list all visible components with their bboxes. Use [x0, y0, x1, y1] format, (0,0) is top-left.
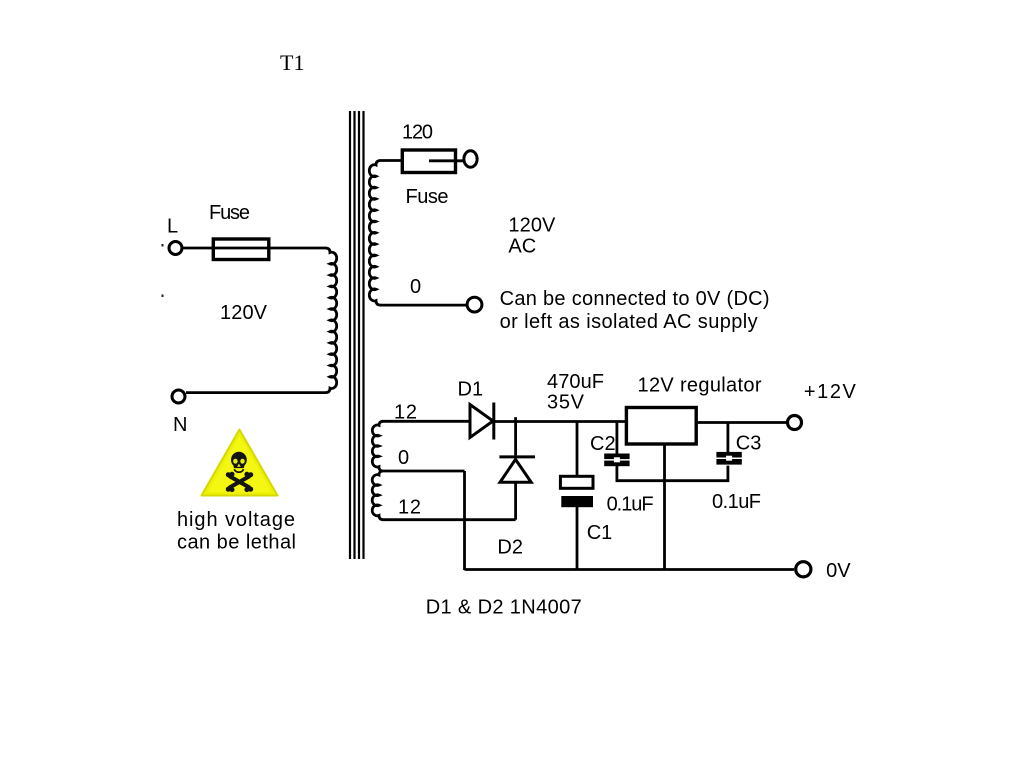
svg-text:C2: C2 [590, 433, 616, 455]
svg-text:D1 & D2 1N4007: D1 & D2 1N4007 [426, 597, 582, 619]
svg-text:L: L [167, 216, 178, 238]
svg-text:C3: C3 [736, 433, 762, 455]
svg-text:D2: D2 [497, 537, 523, 559]
svg-text:120V: 120V [508, 215, 556, 237]
svg-text:or left as isolated AC supply: or left as isolated AC supply [500, 311, 758, 333]
regulator ground pin [663, 444, 666, 570]
wire upper tap to D1 [382, 420, 470, 423]
wire secondary1 bottom [380, 304, 468, 307]
wire coil to fuse F2 [380, 159, 403, 162]
secondary 1 (120V) winding [369, 161, 380, 306]
capacitor C2 [604, 454, 629, 467]
fuse F1 (primary) [213, 239, 268, 260]
jaw [234, 469, 243, 472]
terminal 0V [796, 562, 811, 577]
skull [231, 452, 247, 468]
diode D2 [499, 457, 535, 482]
wire L to primary coil [182, 247, 326, 250]
terminal N [172, 390, 185, 403]
svg-text:high voltage: high voltage [177, 509, 295, 531]
junction stub and riser to D2 [514, 417, 517, 455]
secondary 2 lower winding (0-12) [372, 471, 383, 520]
capacitor C1 [560, 476, 593, 488]
svg-text:0: 0 [398, 447, 409, 469]
svg-text:C1: C1 [587, 522, 613, 544]
svg-text:0V: 0V [826, 560, 851, 582]
12V regulator box [626, 408, 696, 445]
center tap wire [382, 470, 465, 473]
wire primary bottom to N [186, 391, 326, 394]
D2 anode lead [514, 484, 517, 520]
C2 bottom lead and ground bus [617, 466, 728, 481]
terminal +12V [788, 416, 802, 430]
svg-text:12: 12 [398, 497, 421, 519]
svg-text:0.1uF: 0.1uF [607, 494, 654, 516]
terminal 120 output [464, 151, 477, 167]
svg-text:120: 120 [402, 121, 433, 143]
lower tap wire to D2 [382, 518, 516, 521]
svg-text:N: N [173, 414, 187, 436]
svg-text:+12V: +12V [804, 381, 857, 403]
fuse F2 (secondary) [402, 150, 455, 173]
stray dot 2 [162, 295, 164, 298]
regulator output wire [696, 421, 788, 424]
transformer core [350, 111, 364, 559]
svg-text:120V: 120V [220, 302, 268, 324]
svg-text:470uF: 470uF [547, 371, 604, 393]
wire D1 to regulator input [494, 420, 628, 423]
center tap riser to 0V rail [463, 471, 466, 570]
svg-text:D1: D1 [458, 379, 484, 401]
primary winding [326, 248, 337, 393]
capacitor C1 lead bottom [576, 507, 579, 570]
crossbones [230, 477, 249, 488]
terminal L [169, 242, 182, 255]
capacitor C2 lead [616, 422, 619, 455]
svg-text:can be lethal: can be lethal [177, 532, 296, 554]
warning triangle [202, 430, 278, 496]
svg-text:Fuse: Fuse [406, 186, 449, 208]
svg-text:0.1uF: 0.1uF [712, 491, 761, 513]
stray dot 1 [162, 244, 164, 247]
svg-text:Fuse: Fuse [209, 202, 250, 224]
svg-text:Can be connected to 0V (DC): Can be connected to 0V (DC) [500, 288, 770, 310]
diode D1 [470, 403, 494, 440]
0V rail [465, 568, 795, 571]
wire inside fuse to terminal [429, 159, 464, 162]
secondary 2 upper winding (12-0) [372, 421, 383, 471]
svg-text:AC: AC [508, 236, 536, 258]
capacitor C1 lead top [576, 422, 579, 478]
svg-text:35V: 35V [547, 392, 585, 414]
svg-text:12V regulator: 12V regulator [638, 375, 762, 397]
svg-text:T1: T1 [280, 50, 304, 75]
capacitor C3 [716, 452, 741, 465]
capacitor C3 lead [727, 423, 730, 453]
svg-text:0: 0 [410, 276, 421, 298]
terminal 0 output [467, 297, 482, 312]
